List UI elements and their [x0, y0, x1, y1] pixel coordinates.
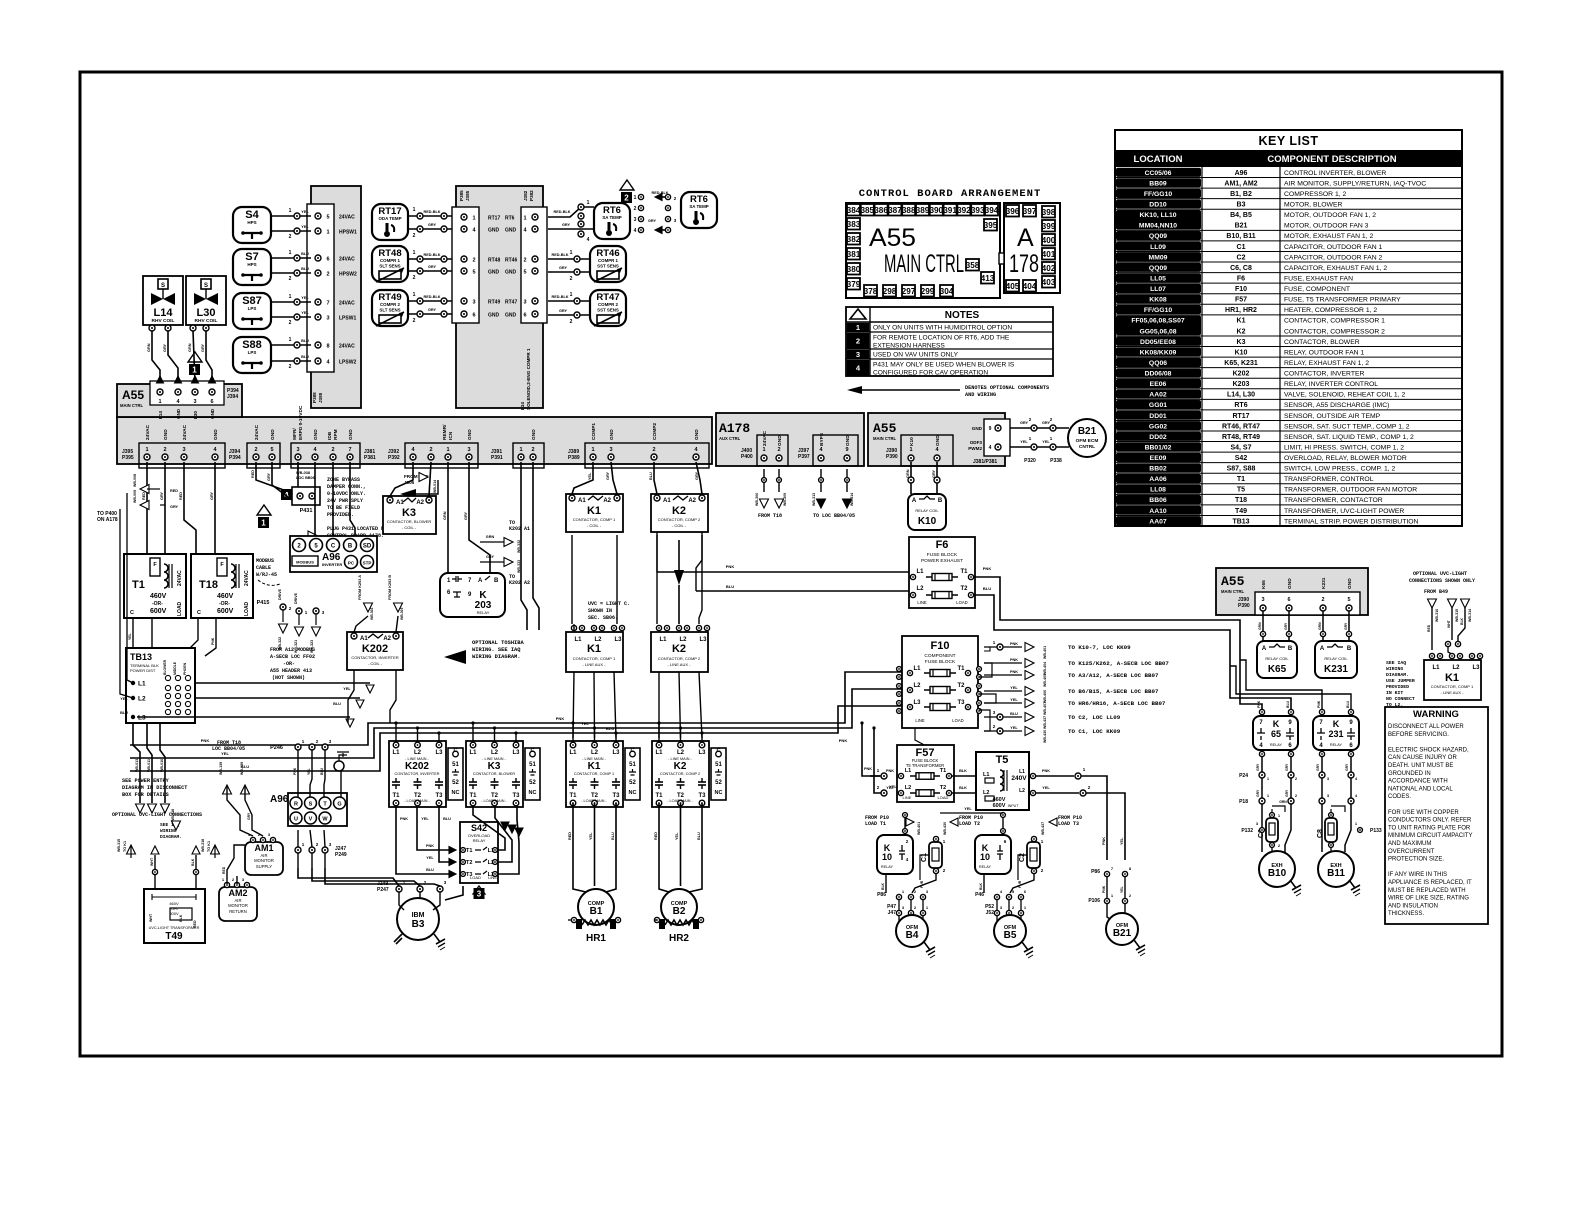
svg-text:LINE: LINE [915, 718, 925, 723]
gray column P388/J388 [311, 186, 361, 408]
svg-text:3: 3 [326, 316, 329, 322]
svg-text:L3: L3 [512, 750, 520, 756]
svg-text:ODA TEMP: ODA TEMP [378, 216, 401, 221]
svg-text:CAPACITOR, OUTDOOR FAN 2: CAPACITOR, OUTDOOR FAN 2 [1284, 254, 1383, 261]
svg-text:PNK: PNK [1317, 700, 1321, 708]
svg-text:3: 3 [477, 890, 482, 899]
svg-text:GRY: GRY [428, 223, 437, 227]
wire K3 to S42 [473, 807, 505, 850]
sensor RT47 suct temp comp2 [590, 290, 626, 326]
svg-text:- LINE AUX -: - LINE AUX - [668, 662, 692, 667]
svg-text:YEL: YEL [120, 697, 128, 701]
note 1 marker mid [257, 505, 271, 515]
svg-text:10: 10 [882, 852, 892, 862]
svg-text:T3: T3 [612, 793, 620, 799]
svg-text:- LINE AUX -: - LINE AUX - [583, 662, 607, 667]
svg-text:P86: P86 [877, 892, 886, 898]
warning box [1385, 707, 1488, 924]
svg-text:L3: L3 [698, 750, 706, 756]
wire B1 feeds [573, 803, 586, 892]
svg-text:K1: K1 [587, 505, 601, 517]
svg-text:BLK: BLK [959, 786, 967, 790]
svg-text:2: 2 [472, 258, 475, 264]
svg-text:COMPR 1: COMPR 1 [598, 258, 619, 263]
svg-text:RED-BLK: RED-BLK [423, 210, 440, 214]
svg-text:POWER DIST: POWER DIST [130, 668, 156, 673]
svg-text:MAIN CTRL: MAIN CTRL [120, 403, 143, 408]
svg-text:C: C [631, 748, 635, 754]
svg-text:2: 2 [652, 447, 655, 453]
svg-text:GND: GND [176, 408, 181, 419]
svg-text:T5 TRANSFORMER: T5 TRANSFORMER [906, 763, 944, 768]
svg-text:BB09: BB09 [1149, 180, 1167, 187]
svg-text:24VAC: 24VAC [339, 301, 355, 307]
svg-text:BLU: BLU [606, 726, 614, 731]
svg-text:CNTRL: CNTRL [1079, 444, 1095, 450]
sensor RT48 liquid temp comp1 [372, 246, 408, 282]
svg-text:HR2: HR2 [669, 933, 689, 944]
svg-text:1: 1 [413, 292, 416, 298]
svg-text:AA07: AA07 [1149, 518, 1167, 525]
svg-text:S42: S42 [471, 823, 487, 833]
svg-text:L2: L2 [591, 750, 599, 756]
svg-text:LINE: LINE [903, 795, 912, 800]
svg-text:WB-303: WB-303 [400, 607, 404, 620]
svg-text:LOAD: LOAD [177, 601, 183, 616]
svg-text:L1: L1 [574, 637, 582, 643]
svg-text:A: A [912, 498, 917, 504]
wire K1 aux to main [573, 672, 574, 738]
outdoor fan motor B5 [994, 915, 1026, 947]
connector P385 J385 pin box [452, 207, 479, 323]
svg-text:BLU: BLU [1010, 712, 1018, 716]
svg-text:L3: L3 [612, 750, 620, 756]
svg-text:GND: GND [505, 270, 517, 276]
svg-text:RETURN: RETURN [229, 909, 246, 914]
svg-text:FROM T18: FROM T18 [758, 513, 782, 519]
svg-text:65: 65 [1271, 729, 1281, 739]
svg-text:YEL: YEL [426, 856, 434, 860]
svg-text:GRY: GRY [559, 309, 568, 313]
svg-text:P86: P86 [1091, 869, 1100, 875]
svg-text:1: 1 [587, 200, 590, 206]
compressor B1 [578, 889, 614, 925]
svg-text:6: 6 [472, 313, 475, 319]
svg-text:WB-406: WB-406 [1043, 690, 1047, 703]
inverter connector A96 modbus [290, 536, 377, 572]
wire TB13 down to disconnect [133, 723, 140, 803]
heater HR2 [659, 919, 665, 929]
wire F57 to T5 [952, 775, 976, 777]
wire K202 coil down [348, 670, 354, 723]
svg-text:NOTES: NOTES [945, 310, 980, 321]
svg-text:460V: 460V [217, 593, 234, 600]
svg-text:COMPR 2: COMPR 2 [380, 302, 401, 307]
fuse block F6 [909, 537, 975, 608]
svg-text:P18: P18 [1239, 799, 1248, 805]
svg-text:USED ON VAV UNITS ONLY: USED ON VAV UNITS ONLY [873, 352, 959, 359]
svg-text:24VAC: 24VAC [177, 570, 183, 586]
svg-text:TERMINAL STRIP, POWER DISTRIBU: TERMINAL STRIP, POWER DISTRIBUTION [1284, 518, 1419, 525]
svg-text:PNK: PNK [400, 817, 408, 821]
svg-text:P389: P389 [568, 455, 580, 461]
svg-text:MONITOR: MONITOR [254, 858, 274, 863]
border frame [80, 72, 1502, 1056]
svg-text:384: 384 [847, 206, 861, 215]
svg-text:WB-407: WB-407 [1043, 702, 1047, 715]
svg-text:EE09: EE09 [1150, 455, 1167, 462]
svg-text:FROM B49: FROM B49 [1424, 589, 1448, 595]
svg-text:C: C [331, 544, 336, 550]
svg-text:L1: L1 [1432, 665, 1440, 671]
svg-text:BLU: BLU [983, 586, 991, 591]
svg-text:PNK: PNK [1042, 769, 1050, 773]
svg-text:LOC BB06: LOC BB06 [296, 476, 315, 480]
contactor K2 line main [652, 741, 709, 807]
svg-text:5: 5 [326, 215, 329, 221]
svg-text:B21: B21 [1113, 928, 1132, 939]
svg-text:1: 1 [289, 337, 292, 343]
svg-text:WIRING. SEE IAQ: WIRING. SEE IAQ [472, 647, 521, 653]
svg-text:2: 2 [163, 447, 166, 453]
overload relay S42 [460, 822, 498, 883]
svg-text:C2: C2 [1019, 853, 1026, 862]
svg-text:MOTOR, BLOWER: MOTOR, BLOWER [1284, 202, 1342, 209]
svg-text:LL09: LL09 [1150, 244, 1166, 251]
svg-text:304: 304 [940, 287, 954, 296]
svg-text:CONTACTOR, INVERTER: CONTACTOR, INVERTER [1284, 371, 1365, 378]
svg-text:YEL: YEL [675, 832, 679, 840]
svg-text:MAIN CTRL: MAIN CTRL [873, 436, 896, 441]
svg-text:TRANSFORMER, OUTDOOR FAN MOTOR: TRANSFORMER, OUTDOOR FAN MOTOR [1284, 487, 1417, 494]
svg-text:GRY: GRY [695, 471, 699, 480]
svg-text:2: 2 [531, 447, 534, 453]
svg-text:600V: 600V [150, 608, 167, 615]
svg-text:J381/P381: J381/P381 [973, 459, 997, 465]
svg-text:YEL: YEL [301, 225, 309, 229]
svg-text:1: 1 [591, 447, 594, 453]
svg-text:51: 51 [715, 762, 722, 768]
svg-text:GRN: GRN [147, 343, 151, 352]
wire J390 to K10 [910, 462, 912, 494]
svg-text:24VAC: 24VAC [339, 215, 355, 221]
svg-text:DD10: DD10 [1149, 202, 1167, 209]
svg-text:MFR/: MFR/ [292, 428, 298, 440]
svg-text:K2: K2 [672, 505, 686, 517]
svg-text:C1: C1 [1237, 244, 1246, 251]
svg-text:B4: B4 [906, 930, 919, 941]
exhaust fan motor B10 [1259, 851, 1295, 887]
wire T5 to fans [1030, 773, 1035, 778]
contactor K1 line aux right [1424, 660, 1481, 700]
wire J392 to K3 [390, 462, 413, 496]
svg-text:A1: A1 [578, 498, 586, 504]
relay coil K231 [1315, 641, 1357, 678]
svg-text:GRY: GRY [486, 555, 495, 559]
svg-text:J305: J305 [404, 480, 415, 485]
svg-text:LOAD: LOAD [952, 718, 963, 723]
svg-text:T3: T3 [698, 793, 706, 799]
svg-text:WB-437: WB-437 [1041, 822, 1045, 835]
svg-text:1: 1 [326, 230, 329, 236]
svg-text:UVC = LIGHT C.: UVC = LIGHT C. [588, 601, 630, 607]
svg-text:24VAC: 24VAC [145, 424, 151, 440]
svg-text:RED-BLK: RED-BLK [551, 295, 568, 299]
svg-text:GND: GND [467, 429, 473, 440]
svg-text:L1: L1 [655, 750, 663, 756]
svg-text:L3: L3 [138, 715, 146, 722]
svg-text:T49: T49 [1235, 508, 1247, 515]
svg-text:GRY: GRY [210, 491, 214, 500]
svg-text:FROM A12 MODBUS: FROM A12 MODBUS [270, 647, 315, 653]
svg-text:SENSOR, A55 DISCHARGE (IMC): SENSOR, A55 DISCHARGE (IMC) [1284, 402, 1389, 409]
svg-text:P24: P24 [1239, 773, 1248, 779]
svg-text:381: 381 [847, 250, 861, 259]
svg-text:382: 382 [847, 235, 861, 244]
svg-text:358: 358 [966, 261, 980, 270]
svg-text:L14, L30: L14, L30 [1227, 392, 1255, 399]
svg-text:YEL: YEL [886, 786, 894, 790]
svg-text:2: 2 [413, 318, 416, 324]
svg-text:CABLE: CABLE [256, 565, 271, 571]
svg-text:24VAC: 24VAC [244, 570, 250, 586]
svg-text:T49: T49 [165, 931, 183, 942]
svg-text:PNK: PNK [556, 716, 565, 721]
svg-text:YEL: YEL [1010, 698, 1018, 702]
svg-text:B3: B3 [412, 919, 425, 930]
svg-text:K202: K202 [362, 643, 388, 655]
svg-text:MOTOR, OUTDOOR FAN 3: MOTOR, OUTDOOR FAN 3 [1284, 223, 1369, 230]
svg-text:1: 1 [413, 207, 416, 213]
svg-text:REMR/: REMR/ [442, 424, 448, 440]
svg-text:L14: L14 [154, 307, 174, 319]
svg-text:L1: L1 [138, 681, 146, 688]
svg-text:GND: GND [1347, 578, 1353, 589]
svg-text:2: 2 [1321, 597, 1324, 603]
svg-text:YEL: YEL [589, 832, 593, 840]
svg-text:LOAD T2: LOAD T2 [959, 821, 980, 827]
svg-text:MIDDLE: MIDDLE [173, 661, 177, 675]
svg-text:NO CONNECT: NO CONNECT [1386, 696, 1415, 702]
svg-text:P381: P381 [364, 455, 376, 461]
svg-text:FUSE BLOCK: FUSE BLOCK [927, 552, 958, 558]
svg-text:4: 4 [989, 445, 992, 451]
svg-text:WIRING: WIRING [1386, 666, 1403, 672]
svg-text:51: 51 [629, 762, 636, 768]
contactor K1 line aux [566, 632, 623, 672]
svg-text:GRY: GRY [428, 308, 437, 312]
svg-text:RT49: RT49 [488, 300, 500, 306]
svg-text:A2: A2 [416, 500, 424, 506]
contactor K3 coil [383, 496, 436, 534]
svg-text:SOLENOID,2-ENG COMPR 1: SOLENOID,2-ENG COMPR 1 [526, 348, 531, 410]
svg-text:PROVIDED: PROVIDED [1386, 684, 1409, 690]
svg-text:G: G [337, 802, 341, 808]
svg-text:WB-430: WB-430 [1043, 730, 1047, 743]
svg-text:387: 387 [888, 206, 902, 215]
svg-text:NATIONAL AND LOCAL: NATIONAL AND LOCAL [1388, 786, 1453, 792]
svg-text:24VAC: 24VAC [339, 344, 355, 350]
svg-text:LIMIT, HI PRESS. SWITCH, COMP: LIMIT, HI PRESS. SWITCH, COMP 1, 2 [1284, 444, 1404, 451]
svg-text:COMP2: COMP2 [652, 423, 658, 440]
svg-text:- COIL -: - COIL - [672, 523, 687, 528]
denotes optional components arrow [847, 386, 862, 394]
svg-text:K1: K1 [1445, 672, 1459, 684]
svg-text:379: 379 [847, 280, 861, 289]
svg-text:RED-BLK: RED-BLK [553, 210, 570, 214]
svg-text:B1: B1 [590, 906, 603, 917]
svg-text:OPTIONAL UVC-LIGHT CONNECTIONS: OPTIONAL UVC-LIGHT CONNECTIONS [112, 812, 202, 818]
svg-text:3: 3 [856, 350, 860, 359]
contactor K2 line aux [651, 632, 708, 672]
svg-text:2: 2 [429, 447, 432, 453]
svg-text:TO K1: TO K1 [207, 841, 211, 852]
svg-text:396: 396 [1006, 207, 1020, 216]
svg-text:T1: T1 [392, 793, 400, 799]
svg-text:LPSW2: LPSW2 [339, 360, 356, 366]
svg-text:CAN CAUSE INJURY OR: CAN CAUSE INJURY OR [1388, 755, 1457, 761]
svg-text:GRN: GRN [443, 511, 447, 520]
svg-text:DEATH. UNIT MUST BE: DEATH. UNIT MUST BE [1388, 763, 1453, 769]
svg-text:- COIL -: - COIL - [368, 661, 383, 666]
svg-text:3: 3 [467, 447, 470, 453]
svg-text:TO C2, LOC LL09: TO C2, LOC LL09 [1068, 714, 1121, 721]
svg-text:L30: L30 [197, 307, 216, 319]
terminal strip TB13 [126, 648, 195, 723]
svg-text:RELAY: RELAY [1330, 743, 1343, 747]
svg-text:WB-315: WB-315 [1455, 609, 1459, 622]
svg-text:GRY: GRY [247, 812, 251, 820]
svg-text:ZONE BYPASS: ZONE BYPASS [327, 477, 360, 483]
svg-text:MUST BE REPLACED WITH: MUST BE REPLACED WITH [1388, 888, 1466, 894]
svg-text:2: 2 [289, 234, 292, 240]
wire S87 to P388 [271, 301, 311, 303]
wire A96 to B3 motor [298, 868, 399, 886]
svg-text:QQ09: QQ09 [1149, 265, 1167, 272]
svg-text:2: 2 [289, 364, 292, 370]
plug P431 zone bypass [292, 487, 320, 505]
svg-text:388: 388 [902, 206, 916, 215]
svg-text:IF ANY WIRE IN THIS: IF ANY WIRE IN THIS [1388, 872, 1447, 878]
svg-text:2: 2 [331, 447, 334, 453]
svg-text:T1: T1 [940, 768, 946, 774]
svg-text:B1, B2: B1, B2 [1230, 191, 1252, 198]
svg-text:- LOAD MAIN -: - LOAD MAIN - [667, 799, 693, 803]
svg-text:LL07: LL07 [1150, 286, 1166, 293]
svg-text:GRN: GRN [906, 469, 910, 478]
svg-text:COMP1: COMP1 [591, 423, 597, 440]
wire F6 to K65 K231 contacts [974, 577, 1262, 712]
svg-text:P390: P390 [886, 454, 898, 460]
svg-text:4: 4 [587, 237, 590, 243]
svg-text:K231: K231 [1324, 664, 1348, 675]
svg-text:UVC-LIGHT TRANSFORMER: UVC-LIGHT TRANSFORMER [149, 926, 200, 930]
svg-text:WB-401: WB-401 [1043, 646, 1047, 659]
svg-text:L3: L3 [435, 750, 443, 756]
svg-text:GRY: GRY [1316, 763, 1320, 771]
A55 band connector J381 P381 [291, 443, 360, 468]
wire RT48 to P385 [408, 258, 452, 260]
svg-text:BLU: BLU [301, 355, 309, 359]
svg-text:T1: T1 [957, 666, 965, 672]
svg-text:SENSOR, SAT. SUCT TEMP., COMP: SENSOR, SAT. SUCT TEMP., COMP 1, 2 [1284, 423, 1410, 430]
svg-text:T1: T1 [1237, 476, 1245, 483]
svg-text:CAPACITOR, EXHAUST FAN 1, 2: CAPACITOR, EXHAUST FAN 1, 2 [1284, 265, 1387, 272]
svg-text:PWM2: PWM2 [968, 446, 982, 451]
svg-text:24VAC: 24VAC [339, 257, 355, 263]
svg-text:LOAD: LOAD [470, 875, 481, 880]
svg-text:T3: T3 [435, 793, 443, 799]
svg-text:TRANSFORMER, CONTACTOR: TRANSFORMER, CONTACTOR [1284, 497, 1383, 504]
svg-text:L2: L2 [138, 696, 146, 703]
svg-text:PROTECTION SIZE.: PROTECTION SIZE. [1388, 857, 1444, 863]
wire TB13 phase rows [195, 682, 370, 684]
pressure switch S87 [233, 293, 271, 329]
wire S88 to P388 [271, 344, 311, 346]
svg-text:A1: A1 [360, 636, 368, 642]
wire branch to F57 [862, 723, 881, 776]
svg-text:QQ09: QQ09 [1149, 233, 1167, 240]
svg-text:AND INSULATION: AND INSULATION [1388, 903, 1438, 909]
wire T1 T18 to TB13 [132, 618, 134, 648]
svg-text:1: 1 [856, 323, 860, 332]
svg-text:GND: GND [488, 270, 500, 276]
svg-text:COMPR 1: COMPR 1 [380, 258, 401, 263]
contactor K1 line main [566, 741, 623, 807]
svg-text:- COIL -: - COIL - [402, 525, 417, 530]
svg-text:PNK: PNK [1010, 658, 1018, 662]
svg-text:L1: L1 [916, 569, 924, 575]
transformer T5 [976, 752, 1029, 810]
svg-text:PNK: PNK [886, 769, 894, 773]
svg-text:BLU: BLU [426, 868, 434, 872]
svg-text:391: 391 [943, 206, 957, 215]
svg-text:FOR USE WITH COPPER: FOR USE WITH COPPER [1388, 810, 1459, 816]
svg-text:YEL: YEL [301, 210, 309, 214]
A55 connector J381/P381 to B21 [984, 419, 1010, 456]
svg-text:NC: NC [629, 790, 637, 796]
svg-text:L3: L3 [1472, 665, 1480, 671]
svg-text:K: K [1333, 719, 1340, 729]
svg-text:3: 3 [609, 447, 612, 453]
svg-text:BLK: BLK [881, 882, 885, 890]
svg-text:6: 6 [523, 313, 526, 319]
wire S42 to B3 [445, 886, 463, 900]
wire K2 coil to F6 feed [656, 532, 658, 572]
svg-text:T3: T3 [512, 793, 520, 799]
svg-text:L30: L30 [193, 411, 198, 419]
svg-text:1: 1 [261, 519, 266, 528]
svg-text:5: 5 [1347, 597, 1350, 603]
wire F6 feeds [657, 571, 911, 573]
svg-text:CAPACITOR, OUTDOOR FAN 1: CAPACITOR, OUTDOOR FAN 1 [1284, 244, 1383, 251]
svg-text:A: A [478, 578, 483, 584]
svg-text:GRN: GRN [486, 535, 495, 539]
svg-text:LOAD: LOAD [244, 601, 250, 616]
svg-text:K3: K3 [402, 507, 416, 519]
svg-text:WB-139: WB-139 [219, 762, 223, 775]
svg-text:RT48, RT49: RT48, RT49 [1222, 434, 1260, 441]
svg-text:T1: T1 [960, 569, 968, 575]
svg-text:RT48: RT48 [488, 258, 500, 264]
svg-text:GRY: GRY [464, 511, 468, 520]
svg-text:AIR MONITOR, SUPPLY/RETURN, IA: AIR MONITOR, SUPPLY/RETURN, IAQ-TVOC [1284, 180, 1426, 187]
svg-text:B10: B10 [1268, 868, 1287, 879]
svg-text:SHOWN IN: SHOWN IN [588, 608, 612, 614]
svg-text:P382: P382 [529, 190, 534, 201]
svg-text:HPS: HPS [247, 262, 256, 267]
svg-text:LL08: LL08 [1150, 487, 1166, 494]
